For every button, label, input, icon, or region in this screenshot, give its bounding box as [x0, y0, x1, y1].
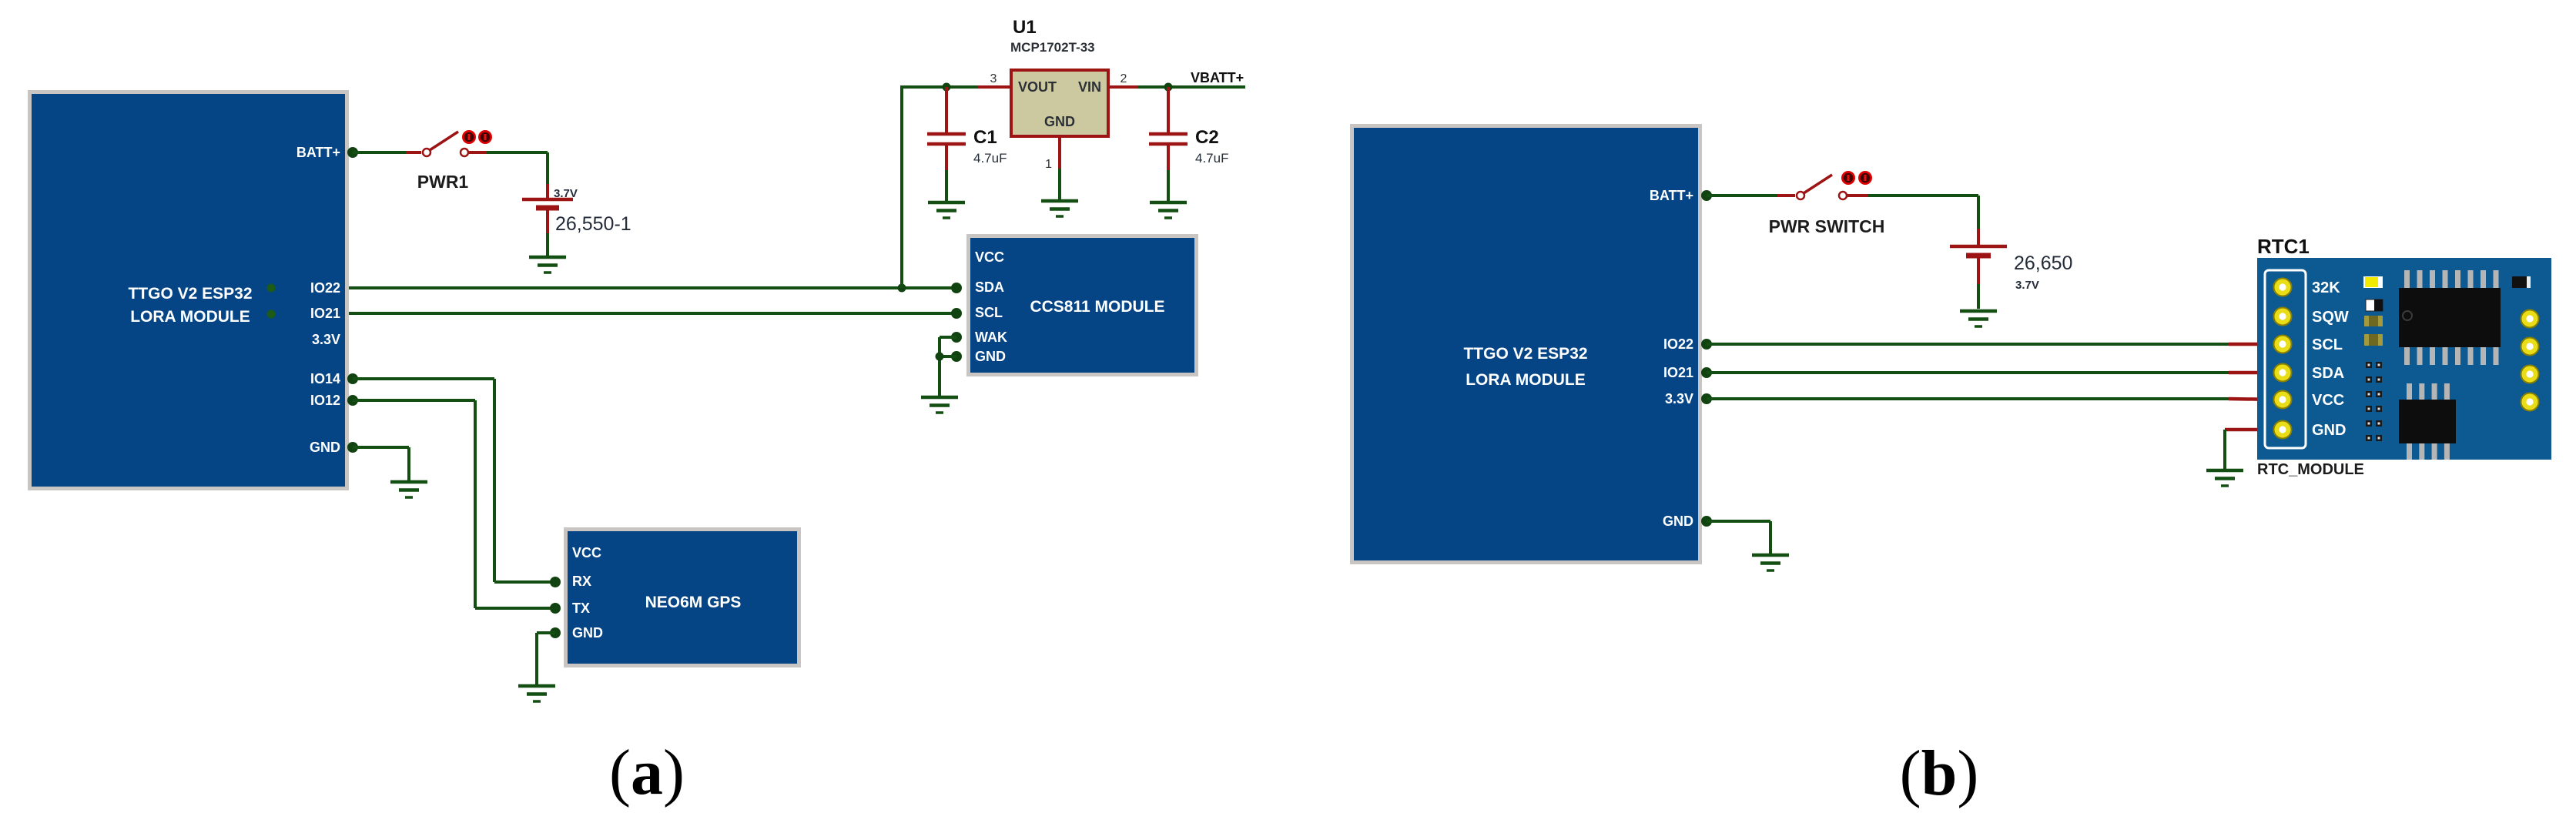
pin RX GPS	[550, 577, 561, 587]
svg-text:VIN: VIN	[1078, 79, 1101, 95]
svg-text:CCS811 MODULE: CCS811 MODULE	[1030, 298, 1164, 316]
wire IO21 to SDA RTC	[1707, 371, 2230, 374]
switch PWR1	[406, 130, 492, 156]
wire IO21 to SCL	[349, 312, 956, 315]
node VBATT+	[1191, 70, 1244, 85]
pin IO14 (a)	[347, 373, 358, 384]
wire GND (b) to ground	[1707, 521, 1770, 554]
label C1 4.7uF	[973, 151, 1007, 166]
wire GND RTC to ground	[2223, 430, 2226, 469]
wire IO22 to SDA	[349, 286, 956, 289]
svg-text:C2: C2	[1195, 127, 1219, 148]
svg-text:LORA MODULE: LORA MODULE	[1466, 371, 1586, 389]
RTC1 pcb board	[2257, 258, 2551, 460]
stub VCC RTC1	[2229, 399, 2276, 400]
svg-text:PWR1: PWR1	[417, 172, 469, 192]
RTC1 cap2	[2512, 276, 2531, 288]
pin SCL CCS811	[951, 308, 962, 319]
wire VOUT net vertical	[902, 87, 978, 288]
capacitor C2	[1149, 87, 1188, 201]
svg-text:IO21: IO21	[310, 306, 340, 321]
svg-text:32K: 32K	[2312, 279, 2340, 296]
pin TX GPS	[550, 603, 561, 614]
svg-text:TTGO V2 ESP32: TTGO V2 ESP32	[1463, 345, 1587, 363]
svg-text:26,550-1: 26,550-1	[555, 213, 631, 235]
stub SCL RTC1	[2229, 343, 2276, 346]
wire VIN to VBATT+	[1138, 85, 1245, 89]
wire switch to battery BAT1	[487, 152, 548, 184]
svg-text:3.7V: 3.7V	[554, 187, 578, 200]
svg-text:IO14: IO14	[310, 371, 340, 386]
svg-text:3.3V: 3.3V	[1665, 391, 1693, 406]
label MCP1702T-33	[1010, 40, 1095, 55]
ground battery BAT1	[529, 257, 566, 273]
junction IO22/VOUT net	[898, 284, 906, 293]
svg-text:RTC1: RTC1	[2257, 235, 2310, 258]
ground U1	[1041, 201, 1078, 216]
RTC1 IC EEPROM	[2399, 383, 2456, 460]
ground battery (b)	[1960, 311, 1997, 326]
ground RTC1	[2206, 470, 2243, 486]
pin 3 stub U1 VOUT	[978, 72, 1011, 87]
junction C2 node	[1164, 83, 1173, 92]
module TTGO V2 ESP32 LORA MODULE (b)	[1350, 124, 1702, 564]
svg-text:GND: GND	[975, 349, 1006, 364]
pin GND CCS811	[951, 351, 962, 362]
wire IO22 to SCL RTC	[1707, 343, 2230, 346]
svg-text:SDA: SDA	[975, 279, 1004, 295]
svg-text:1: 1	[1045, 158, 1052, 171]
pin GND (b)	[1701, 516, 1712, 527]
wire GND GPS to ground	[537, 633, 555, 684]
pin WAK CCS811	[951, 332, 962, 343]
svg-text:3.7V: 3.7V	[2015, 279, 2039, 292]
RTC1 through holes	[2366, 362, 2382, 441]
svg-text:NEO6M GPS: NEO6M GPS	[645, 594, 742, 611]
label 26,650	[2014, 253, 2072, 274]
label PWR1	[417, 172, 469, 192]
svg-text:IO22: IO22	[1663, 336, 1693, 352]
svg-text:(a): (a)	[609, 737, 685, 808]
label C2	[1195, 127, 1219, 148]
svg-text:VCC: VCC	[572, 545, 601, 560]
label C2 4.7uF	[1195, 151, 1228, 166]
RTC1 IC DS3231	[2399, 270, 2501, 365]
label RTC1	[2257, 235, 2310, 258]
svg-text:TX: TX	[572, 601, 590, 616]
svg-text:C1: C1	[973, 127, 997, 148]
RTC1 res2	[2364, 334, 2383, 346]
svg-text:GND: GND	[310, 440, 340, 455]
pin IO21 (b)	[1701, 367, 1712, 378]
wire switch to battery (b)	[1868, 196, 1978, 229]
svg-text:3: 3	[990, 72, 997, 85]
stub GND RTC1	[2225, 428, 2276, 432]
battery BAT1 26,550-1	[522, 184, 573, 256]
svg-text:(b): (b)	[1900, 738, 1979, 809]
wire 3.3V to VCC RTC	[1707, 397, 2230, 400]
svg-text:VBATT+: VBATT+	[1191, 70, 1244, 85]
pin IO22 (b)	[1701, 339, 1712, 350]
capacitor C1	[927, 87, 966, 201]
wire IO14 to RX	[353, 379, 555, 582]
ground CCS811	[921, 397, 958, 413]
RTC1 res1	[2364, 316, 2383, 326]
RTC1 LED	[2363, 276, 2383, 288]
svg-text:4.7uF: 4.7uF	[1195, 151, 1228, 166]
label PWR SWITCH	[1769, 216, 1885, 236]
RTC1 cap1	[2366, 299, 2383, 311]
svg-text:4.7uF: 4.7uF	[973, 151, 1007, 166]
caption (b)	[1900, 738, 1979, 809]
pin BATT+ (a)	[347, 147, 358, 158]
svg-text:PWR SWITCH: PWR SWITCH	[1769, 216, 1885, 236]
svg-text:VOUT: VOUT	[1018, 79, 1057, 95]
label RTC_MODULE	[2257, 461, 2364, 478]
label 26,550-1	[555, 213, 631, 235]
module CCS811	[966, 234, 1198, 376]
pin 1 stub U1 GND	[1045, 136, 1060, 199]
RTC1 header pins	[2274, 279, 2292, 439]
ground GPS	[518, 686, 555, 701]
svg-text:VCC: VCC	[2312, 392, 2344, 409]
ground C1	[928, 202, 965, 218]
svg-text:SCL: SCL	[2312, 336, 2343, 353]
module TTGO V2 ESP32 LORA MODULE (a)	[28, 90, 349, 490]
pin IO12 (a)	[347, 395, 358, 406]
svg-text:GND: GND	[572, 625, 603, 641]
junction WAK-GND	[936, 353, 944, 361]
RTC1 right pads	[2521, 310, 2539, 411]
label 3.7V (a)	[554, 187, 578, 200]
wire IO12 to TX	[353, 400, 555, 608]
svg-text:BATT+: BATT+	[296, 145, 340, 160]
wire WAK/GND to ground	[940, 337, 956, 396]
pin 3.3V (b)	[1701, 393, 1712, 404]
ground C2	[1150, 202, 1187, 218]
svg-text:RTC_MODULE: RTC_MODULE	[2257, 461, 2364, 478]
switch PWR SWITCH	[1777, 171, 1872, 199]
svg-text:SQW: SQW	[2312, 309, 2349, 326]
svg-text:2: 2	[1121, 72, 1127, 85]
svg-text:WAK: WAK	[975, 330, 1007, 345]
label C1	[973, 127, 997, 148]
svg-text:IO22: IO22	[310, 280, 340, 296]
svg-text:SDA: SDA	[2312, 365, 2344, 382]
caption (a)	[609, 737, 685, 808]
pin SDA CCS811	[951, 283, 962, 293]
label 3.7V (b)	[2015, 279, 2039, 292]
svg-text:BATT+: BATT+	[1650, 188, 1693, 203]
wire GND (a) to ground	[353, 447, 409, 480]
svg-text:U1: U1	[1013, 17, 1037, 38]
pin GND (a)	[347, 442, 358, 453]
svg-text:TTGO V2 ESP32: TTGO V2 ESP32	[128, 285, 252, 303]
ground TTGO (a)	[390, 482, 427, 497]
svg-text:IO21: IO21	[1663, 365, 1693, 380]
svg-text:MCP1702T-33: MCP1702T-33	[1010, 40, 1095, 55]
svg-text:VCC: VCC	[975, 249, 1004, 265]
label U1	[1013, 17, 1037, 38]
svg-text:IO12: IO12	[310, 393, 340, 408]
pin GND GPS	[550, 627, 561, 638]
pin BATT+ (b)	[1701, 190, 1712, 201]
wire BATT+ to switch PWR1	[353, 151, 406, 154]
svg-text:GND: GND	[1044, 114, 1075, 129]
svg-text:26,650: 26,650	[2014, 253, 2072, 274]
op-amp U1 MCP1702T-33 body	[1011, 70, 1108, 136]
stub SDA RTC1	[2229, 371, 2276, 375]
svg-text:3.3V: 3.3V	[312, 332, 340, 347]
wire BATT+ to switch (b)	[1707, 194, 1777, 197]
svg-text:GND: GND	[2312, 422, 2346, 439]
ground TTGO (b)	[1752, 555, 1789, 570]
RTC1 pin labels	[2312, 279, 2349, 439]
svg-text:RX: RX	[572, 574, 591, 589]
svg-text:LORA MODULE: LORA MODULE	[130, 308, 250, 326]
junction C1 node	[943, 83, 951, 92]
svg-text:GND: GND	[1663, 514, 1693, 529]
pin 2 stub U1 VIN	[1108, 72, 1138, 87]
svg-text:SCL: SCL	[975, 305, 1003, 320]
module NEO6M GPS	[564, 527, 801, 667]
battery 26,650	[1950, 229, 2007, 309]
